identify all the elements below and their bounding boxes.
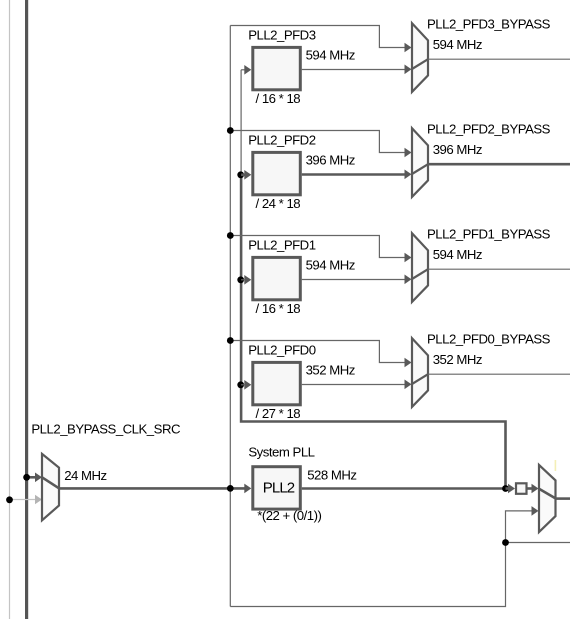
pin: PLL2 input arrow <box>244 484 251 494</box>
wire: PLL2_PFD1_BYPASS output to right edge <box>428 268 570 270</box>
node: junction on 528 trunk row 1 <box>237 276 244 283</box>
svg-text:/ 16 * 18: / 16 * 18 <box>256 91 301 106</box>
svg-text:PLL2_BYPASS_CLK_SRC: PLL2_BYPASS_CLK_SRC <box>31 422 181 437</box>
pin: mux input 2 arrow (PFD clock) <box>405 380 412 390</box>
wire: 24M feed elbow to PLL2_PFD0_BYPASS mux input 1 <box>230 341 404 363</box>
svg-text:24 MHz: 24 MHz <box>64 468 106 483</box>
wire: 24M bus branch to mux input 1 (active) <box>27 476 36 479</box>
svg-text:PLL2_PFD0: PLL2_PFD0 <box>248 343 316 358</box>
mux PLL2_PFD0_BYPASS <box>412 338 428 407</box>
svg-text:PLL2_PFD3: PLL2_PFD3 <box>248 28 316 43</box>
node: junction on 24M trunk row 0 <box>227 337 234 344</box>
wire: mux selected path (input2 to output) <box>412 374 428 384</box>
svg-text:*(22 + (0/1)): *(22 + (0/1)) <box>257 508 321 523</box>
wire: 24 MHz output to PLL2 input (thick) <box>59 487 245 490</box>
pin: mux input 1 arrow (24M bypass) <box>405 253 412 263</box>
wire: PLL2 bypass mux output to right edge (thick) <box>556 497 570 500</box>
node: junction on 528 trunk row 2 <box>237 171 244 178</box>
svg-text:396 MHz: 396 MHz <box>306 153 355 168</box>
svg-text:594 MHz: 594 MHz <box>433 37 482 52</box>
svg-text:/ 27 * 18: / 27 * 18 <box>256 406 301 421</box>
node: junction on 24M trunk row 2 <box>227 127 234 134</box>
wire: light rail branch to mux input 2 (inactive) <box>10 499 36 501</box>
pin: mux input 1 arrow (24M bypass) <box>405 43 412 53</box>
svg-text:528 MHz: 528 MHz <box>307 468 356 483</box>
pin: arrow into terminal square <box>508 484 515 494</box>
pin: mux input 1 arrow (24M bypass) <box>405 148 412 158</box>
node: junction on 528 trunk row 0 <box>237 381 244 388</box>
wire: mux selected path (input1 to output) <box>539 489 556 499</box>
svg-text:352 MHz: 352 MHz <box>306 363 355 378</box>
pin: input arrow of PLL2_PFD2 <box>244 170 251 180</box>
wire: PLL2 528MHz trunk thick active segment <box>241 175 505 489</box>
svg-text:PLL2_PFD1_BYPASS: PLL2_PFD1_BYPASS <box>427 226 551 241</box>
svg-text:PLL2_PFD2_BYPASS: PLL2_PFD2_BYPASS <box>427 121 551 136</box>
wire: PLL2_PFD1 output to bypass mux input 2 <box>302 279 405 281</box>
pin: mux input 2 arrow (PFD clock) <box>405 275 412 285</box>
svg-text:System PLL: System PLL <box>248 445 314 460</box>
wire: PLL2_PFD0 output to bypass mux input 2 <box>302 384 405 386</box>
svg-text:PLL2: PLL2 <box>263 480 295 497</box>
decoration: faint yellow marker above bypass mux corner <box>554 460 556 471</box>
wire: PLL2_PFD0_BYPASS output to right edge <box>428 373 570 375</box>
mux PLL2_BYPASS_CLK_SRC body <box>42 454 59 520</box>
wire: 528 branch into PLL2_PFD3 <box>241 69 245 71</box>
wire: PLL2 528MHz output (thick) <box>302 487 506 490</box>
node: junction PLL2 output / PFD trunk <box>502 485 509 492</box>
svg-text:396 MHz: 396 MHz <box>433 142 482 157</box>
wire: 528 branch into PLL2_PFD1 <box>241 279 245 281</box>
pin: mux input 2 arrow (inactive, light) <box>35 495 42 505</box>
wire: riser into PLL2 bypass mux input 2 <box>506 511 532 543</box>
node: terminal square (pll2_main_clk tap) <box>516 483 527 494</box>
node: junction bottom-right <box>502 539 509 546</box>
wire: mux selected path (input2 to output) <box>412 269 428 279</box>
wire: PLL2_PFD3_BYPASS output to right edge <box>428 58 570 60</box>
wire: square to bypass mux <box>527 487 532 490</box>
divider PLL2_PFD2 box <box>253 152 300 194</box>
pin: PLL2 bypass mux input 1 arrow <box>532 484 539 494</box>
svg-text:PLL2_PFD1: PLL2_PFD1 <box>248 238 316 253</box>
pin: mux input 2 arrow (PFD clock) <box>405 170 412 180</box>
wire: bottom-right branch to edge <box>506 542 570 544</box>
pll PLL2 box <box>253 467 300 509</box>
mux PLL2_PFD1_BYPASS <box>412 233 428 302</box>
svg-text:594 MHz: 594 MHz <box>306 258 355 273</box>
wire: mux selected path (input2 to output) <box>412 164 428 174</box>
pin: mux input 1 arrow (24 MHz) <box>35 473 42 483</box>
wire: 24M feed elbow to PLL2_PFD1_BYPASS mux input 1 <box>230 236 404 258</box>
wire: light inactive source rail (far left) <box>9 0 11 619</box>
pin: mux input 1 arrow (24M bypass) <box>405 358 412 368</box>
wire: 528 branch into PLL2_PFD0 <box>241 384 245 386</box>
wire: 24M feed elbow to PLL2_PFD3_BYPASS mux input 1 <box>230 26 404 48</box>
node: junction on 24M bus <box>23 474 30 481</box>
node: junction on light rail <box>6 496 13 503</box>
divider PLL2_PFD1 box <box>253 257 300 299</box>
pin: PLL2 bypass mux input 2 arrow <box>532 506 539 516</box>
wire: junction to terminal square <box>506 487 509 490</box>
mux PLL2 bypass (bottom right) <box>539 465 556 532</box>
svg-text:352 MHz: 352 MHz <box>433 352 482 367</box>
wire: PLL2_PFD2_BYPASS output to right edge <box>428 163 570 166</box>
pin: mux input 2 arrow (PFD clock) <box>405 65 412 75</box>
divider PLL2_PFD0 box <box>253 362 300 404</box>
svg-text:/ 24 * 18: / 24 * 18 <box>256 196 301 211</box>
mux PLL2_PFD2_BYPASS <box>412 128 428 197</box>
svg-text:PLL2_PFD0_BYPASS: PLL2_PFD0_BYPASS <box>427 331 551 346</box>
wire: PLL2_PFD2 output to bypass mux input 2 <box>302 173 405 176</box>
pin: input arrow of PLL2_PFD0 <box>244 380 251 390</box>
svg-text:594 MHz: 594 MHz <box>433 247 482 262</box>
divider PLL2_PFD3 box <box>253 47 300 89</box>
wire: 24 MHz oscillator bus (thick vertical) <box>25 0 28 619</box>
node: junction 24M wire x bypass trunk <box>227 485 234 492</box>
wire: PLL2_PFD3 output to bypass mux input 2 <box>302 69 405 71</box>
svg-text:PLL2_PFD3_BYPASS: PLL2_PFD3_BYPASS <box>427 16 551 31</box>
svg-text:PLL2_PFD2: PLL2_PFD2 <box>248 133 316 148</box>
wire: PLL2 528MHz trunk thin segment (rows 1-2) <box>240 70 242 175</box>
wire: PLL2 bypass 24M distribution trunk vertical <box>229 26 231 607</box>
wire: 528 branch into PLL2_PFD2 <box>241 174 245 177</box>
pin: input arrow of PLL2_PFD1 <box>244 275 251 285</box>
wire: bottom return segment to bypass mux <box>230 543 505 607</box>
mux PLL2_PFD3_BYPASS <box>412 23 428 92</box>
svg-text:594 MHz: 594 MHz <box>306 48 355 63</box>
node: junction on 24M trunk row 1 <box>227 232 234 239</box>
wire: mux selected path (input2 to output) <box>412 59 428 69</box>
svg-text:/ 16 * 18: / 16 * 18 <box>256 301 301 316</box>
wire: mux selected path (input1 to output) <box>42 477 59 488</box>
pin: input arrow of PLL2_PFD3 <box>244 65 251 75</box>
wire: 24M feed elbow to PLL2_PFD2_BYPASS mux input 1 <box>230 131 404 153</box>
